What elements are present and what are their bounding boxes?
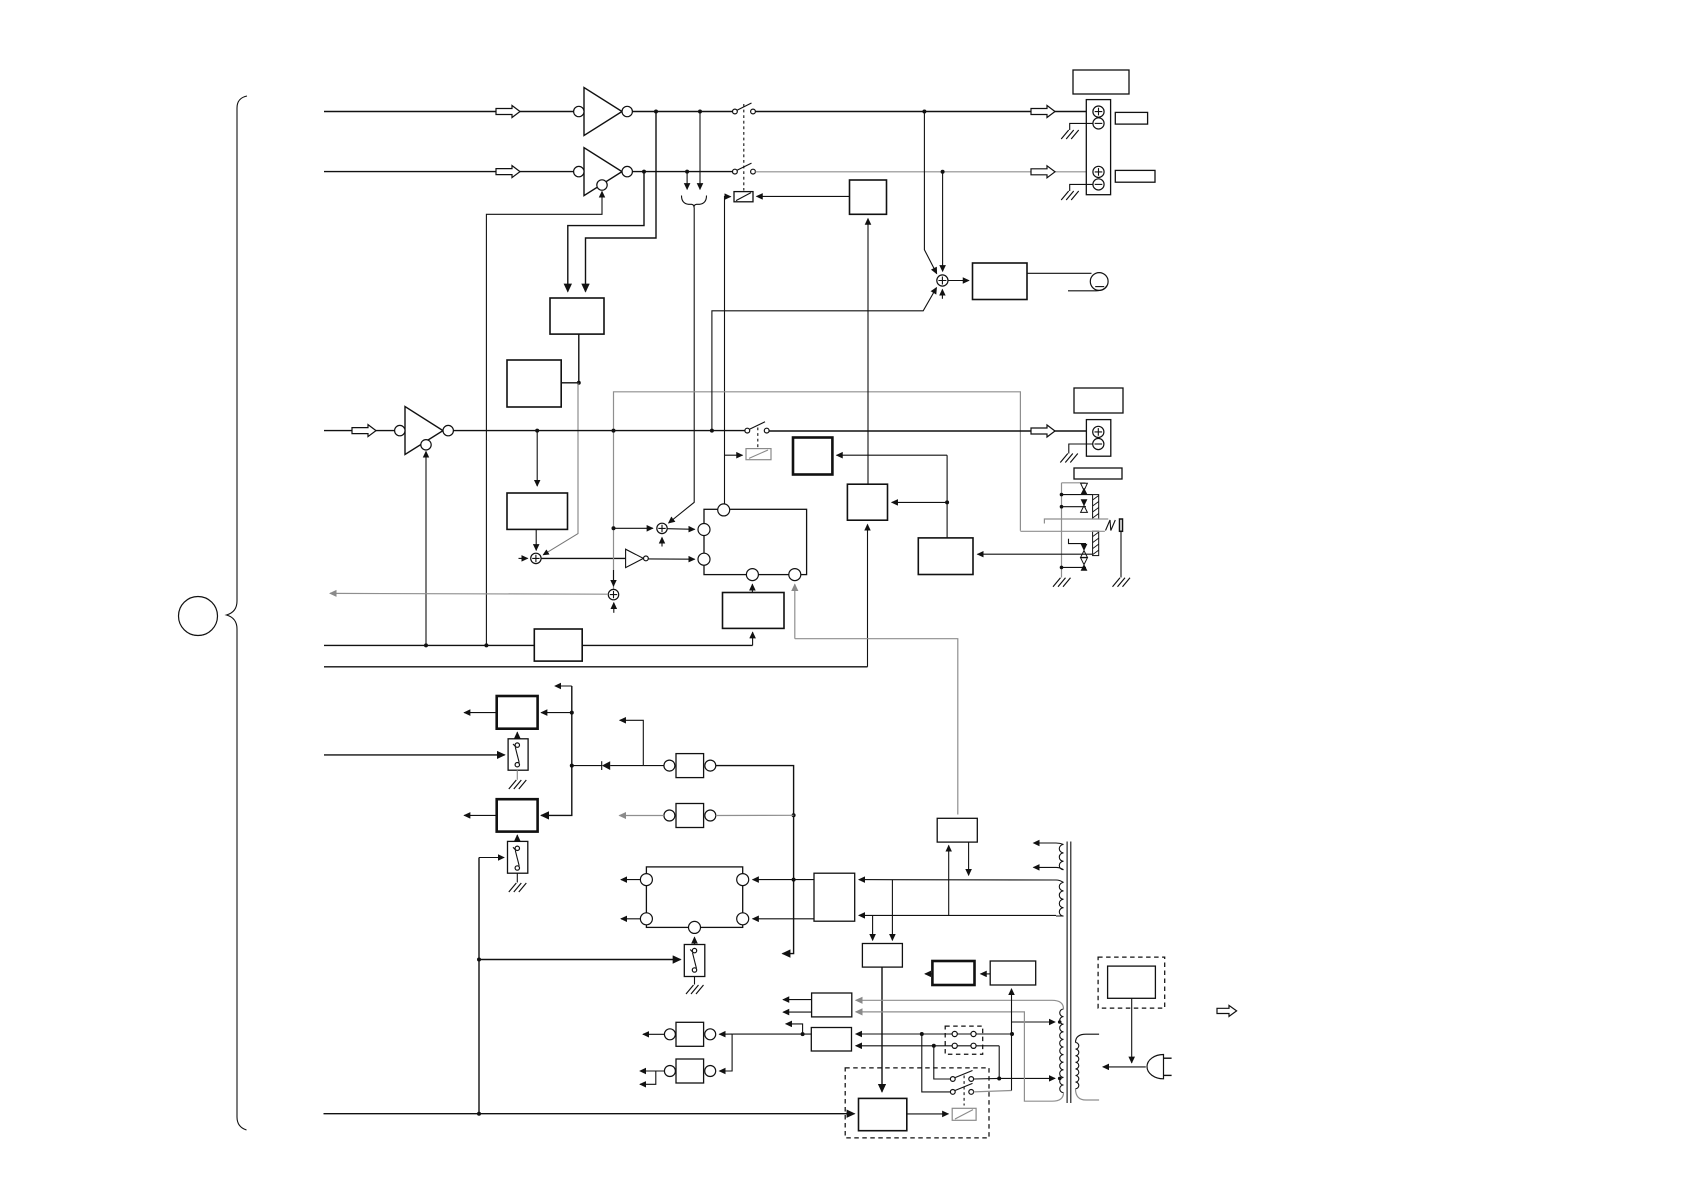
connector pair P3 bbox=[664, 1022, 715, 1046]
wire block U top to block H bbox=[867, 219, 869, 485]
label box speakers bbox=[1073, 70, 1129, 94]
subwoofer mix vertical from line2 bbox=[942, 172, 944, 271]
wire S6 to ground bbox=[694, 977, 696, 985]
wire rail into block J bbox=[541, 712, 572, 714]
node line1-C bbox=[922, 110, 926, 114]
jack stub 494 bbox=[1062, 494, 1093, 496]
switch S4 (pushbutton) bbox=[508, 739, 528, 770]
W3 bottom lead (gray to box R) bbox=[856, 1012, 1064, 1101]
jack stub 507 bbox=[1062, 506, 1087, 508]
dashed link S3-RY2 bbox=[757, 428, 759, 449]
sub mix feed from line3 bbox=[712, 288, 937, 431]
arrow input R bbox=[496, 166, 520, 178]
wire R minus to ground bbox=[1070, 184, 1093, 191]
AC plug bbox=[1147, 1055, 1172, 1079]
block H (relay driver) bbox=[850, 180, 887, 214]
arrow rail top left bbox=[555, 685, 572, 687]
block N (AC detect) bbox=[937, 818, 977, 842]
W3 tap 1 bbox=[1012, 1021, 1056, 1023]
block K (display 2) bbox=[497, 799, 538, 831]
switch S1 (speaker relay contact L) bbox=[733, 103, 756, 114]
arrow into summer C2 from above bbox=[613, 570, 615, 586]
node row2-upper-switch bbox=[932, 1044, 936, 1048]
terminal SUB minus bbox=[1093, 438, 1104, 449]
label box subwoofer bbox=[1074, 388, 1123, 413]
AC pins dashed box bbox=[945, 1026, 983, 1054]
arrows P4 left out bbox=[640, 1070, 664, 1072]
arrow input L bbox=[496, 106, 520, 118]
wire stub input summer C2 bbox=[613, 603, 615, 613]
node S5 riser bottom bbox=[477, 1112, 481, 1116]
block U (detector) bbox=[847, 484, 887, 520]
wire S4 to ground bbox=[516, 770, 518, 780]
wire vertical E-U-V bbox=[946, 455, 948, 538]
plug stop block bbox=[1120, 519, 1123, 531]
jack frame top bbox=[1062, 482, 1086, 484]
label box speaker L bbox=[1115, 112, 1147, 124]
wire supply rail vertical bbox=[541, 686, 572, 815]
wire adaptor down to AC line bbox=[1131, 998, 1133, 1063]
wire AC line with arrow bbox=[1103, 1066, 1146, 1068]
node bus-U3 bbox=[424, 643, 428, 647]
block C (low pass filter) bbox=[507, 493, 568, 529]
wire line1 tap into block A bbox=[586, 112, 657, 292]
switch S3 (sub relay contact) bbox=[745, 422, 769, 433]
block S (standby supply) bbox=[932, 961, 974, 985]
ground S6 bbox=[686, 985, 704, 994]
wire P1 right to riser bbox=[716, 766, 794, 954]
wire T down to connector pair P4 bbox=[719, 1034, 732, 1071]
ground jack sleeve bbox=[1053, 578, 1071, 587]
wire jack detect to block V bbox=[978, 553, 1093, 555]
wire input L (line 1) bbox=[324, 111, 574, 113]
node gray-line3 bbox=[612, 429, 616, 433]
terminal L minus bbox=[1093, 118, 1104, 129]
connector pair P4 bbox=[664, 1059, 715, 1083]
ground S4 bbox=[509, 780, 527, 789]
wire S5 to block K bbox=[516, 835, 518, 841]
node line2-C bbox=[941, 170, 945, 174]
block L (rectifier) bbox=[814, 873, 855, 921]
W1 lead arrows bbox=[1034, 842, 1057, 844]
label box speaker R bbox=[1115, 170, 1155, 182]
node row1-lower-switch bbox=[920, 1032, 924, 1036]
summer S (headphone mono sum) bbox=[937, 275, 948, 286]
ground L bbox=[1061, 130, 1079, 139]
block G (volume control) bbox=[534, 629, 582, 661]
speaker terminal block L/R bbox=[1086, 100, 1110, 195]
wire SUB minus to ground bbox=[1069, 444, 1093, 454]
wire winding lead 2 into box L bbox=[859, 914, 1056, 916]
wire T to connector pair P3 bbox=[719, 1033, 732, 1035]
dashed enclosure AC adaptor bbox=[1098, 957, 1165, 1008]
control bus wire y645 bbox=[324, 644, 753, 646]
wire input SUB (line 3) bbox=[324, 430, 395, 432]
node row1-riser bbox=[1010, 1032, 1014, 1036]
node rail-J bbox=[570, 711, 574, 715]
W4 bottom lead bbox=[1076, 1089, 1100, 1100]
jack stub 543 bbox=[1069, 539, 1087, 544]
arrow P3 left out bbox=[643, 1033, 664, 1035]
wire stub input summer C3 bbox=[519, 557, 528, 559]
wire block C to summer C3 bbox=[535, 529, 537, 550]
wire line 3 switch to terminal bbox=[769, 430, 1087, 432]
wire winding lead 1 into block bbox=[753, 879, 814, 881]
W3 tap 2 bbox=[999, 1077, 1055, 1079]
label box phones bbox=[1074, 468, 1122, 479]
relay RY3 coil (gray) bbox=[952, 1108, 976, 1120]
wire y668 up into block U bottom bbox=[867, 525, 869, 667]
wire block F to matrix B1 bbox=[751, 584, 753, 592]
node jack sleeve B bbox=[1060, 505, 1064, 509]
wire summer C3 to inverter bbox=[541, 557, 625, 559]
AC pins circles row2 bbox=[952, 1043, 976, 1048]
summer C2 bbox=[608, 589, 618, 599]
subwoofer terminal block bbox=[1086, 420, 1110, 457]
block V (headphone sense) bbox=[918, 538, 973, 575]
amp U1 (L power amp) bbox=[574, 88, 633, 136]
AC pins circles row1 bbox=[952, 1031, 976, 1036]
switch S5 (pushbutton) bbox=[508, 841, 528, 873]
wire block A to block B junction bbox=[561, 334, 578, 383]
terminal R minus bbox=[1093, 179, 1104, 190]
amp U2 (R power amp) bbox=[574, 148, 633, 196]
matrix pin top bbox=[718, 504, 730, 516]
wire P2 left (gray arrow) bbox=[619, 815, 664, 817]
wire line 2 switch to terminal (gray) bbox=[755, 171, 1087, 173]
wire S5 to ground bbox=[516, 873, 518, 882]
jack contact bowtie 1 bbox=[1081, 483, 1088, 494]
T1 winding W2 (middle left) bbox=[1056, 880, 1064, 916]
arrow AC out (big right) bbox=[1217, 1005, 1237, 1016]
connector pair P1 bbox=[664, 754, 716, 778]
matrix pin B1 bbox=[746, 569, 758, 581]
node W3 tap1 bbox=[1058, 1020, 1062, 1024]
headphone plug bar (gray) bbox=[1020, 519, 1108, 531]
summer C3 bbox=[531, 553, 541, 563]
wire standby riser to block Q bbox=[1011, 989, 1013, 1091]
W4 top lead bbox=[1076, 1034, 1100, 1042]
wire lower switch right (gray) bbox=[974, 1091, 1012, 1092]
wire plug stop to ground bbox=[1120, 531, 1122, 577]
wire junction down to summer C3 bbox=[543, 383, 578, 555]
ground jack right bbox=[1113, 578, 1131, 587]
wire RY2 from box E bbox=[837, 454, 948, 456]
wire stub input summer C1 bbox=[661, 538, 663, 547]
wire box L into block bbox=[753, 918, 814, 920]
arrow block J output bbox=[464, 712, 497, 714]
block E (mute control) bbox=[793, 438, 832, 475]
jack contact bowtie 2 bbox=[1081, 499, 1088, 512]
power switch S7 upper bbox=[950, 1071, 973, 1082]
wire S4 feed bbox=[324, 754, 505, 756]
headphone earpiece icon bbox=[1068, 273, 1108, 291]
wire U2 gain control feedback bbox=[486, 192, 602, 646]
wire S6 to connector block bbox=[694, 937, 696, 944]
relay RY2 coil (gray) bbox=[746, 449, 771, 460]
arrow block S out bbox=[925, 973, 932, 975]
matrix pin L1 bbox=[698, 524, 710, 536]
jack insulator hatch top bbox=[1093, 495, 1099, 519]
arrow diode branch up-left bbox=[620, 720, 644, 765]
wire branch to RY2 bbox=[725, 454, 743, 456]
ground S5 bbox=[509, 883, 527, 892]
wire winding lead 1 into box L right bbox=[859, 879, 1056, 881]
arrow block K output bbox=[464, 814, 497, 816]
node gray-branch bbox=[612, 526, 616, 530]
power switch S7 lower bbox=[950, 1083, 973, 1094]
node jack sleeve A bbox=[1060, 493, 1064, 497]
wire block X down to block P bbox=[881, 967, 883, 1092]
wire line 1 amp to switch bbox=[632, 111, 732, 113]
block X (rectifier bridge) bbox=[862, 944, 902, 968]
arrow block Q to block S bbox=[981, 973, 991, 975]
wire lead2 into block X bbox=[872, 915, 874, 940]
wire gray branch to summer C1 bbox=[614, 527, 653, 529]
wire headphone mix output (gray, to left) bbox=[330, 592, 608, 595]
matrix pin L2 bbox=[698, 553, 710, 565]
block M (AC inlet filter) bbox=[811, 1028, 851, 1052]
switch S6 (speakers off pushbutton) bbox=[684, 945, 705, 977]
arrow out SUB bbox=[1031, 425, 1055, 437]
arrow input SUB bbox=[352, 425, 376, 437]
gray headphone feed path bbox=[614, 392, 1021, 595]
dashed link S7-RY3 bbox=[963, 1076, 965, 1106]
node line1-B bbox=[698, 110, 702, 114]
arrow out R bbox=[1031, 166, 1055, 178]
wire inverter to matrix L2 bbox=[648, 558, 694, 560]
wire box N sense 2 bbox=[968, 842, 970, 875]
node rail-diode bbox=[570, 764, 574, 768]
ganged switch dashed link S1-S2-RY1 bbox=[743, 104, 745, 191]
node EUV bbox=[945, 500, 949, 504]
plug spring bbox=[1106, 520, 1116, 531]
speaker selector connector block bbox=[640, 867, 748, 934]
wire lead1 into block X bbox=[891, 880, 893, 941]
terminal R plus bbox=[1093, 166, 1104, 177]
block Q (fuse) bbox=[990, 961, 1035, 985]
wire L minus to ground bbox=[1070, 123, 1093, 130]
T1 winding W3 (big left) bbox=[1060, 1009, 1064, 1093]
wire U3 gain control feedback bbox=[425, 452, 427, 646]
wire into block U right bbox=[892, 501, 947, 503]
wire stub input summer S bbox=[941, 290, 943, 299]
wire line 1 switch to terminal bbox=[755, 111, 1087, 113]
jack insulator hatch bottom bbox=[1093, 531, 1099, 555]
arrow out L bbox=[1031, 106, 1055, 118]
wire to headphone icon bbox=[1027, 272, 1092, 274]
node line1-A bbox=[654, 110, 658, 114]
gray standby path from matrix B2 bbox=[794, 584, 796, 638]
node W3 tap2 bbox=[1058, 1077, 1062, 1081]
node bus-U2 bbox=[484, 643, 488, 647]
wire y667 to block H riser bbox=[324, 666, 868, 668]
wire P2 right (gray) bbox=[716, 814, 794, 816]
relay RY1 coil bbox=[734, 192, 753, 202]
grouping brace bbox=[227, 96, 248, 1130]
wire summer S to headphone amp bbox=[948, 280, 969, 282]
arrow block left out B bbox=[621, 918, 640, 920]
wire upper switch to tap bbox=[974, 1077, 1000, 1080]
jack contact bowtie 3 bbox=[1081, 544, 1088, 558]
block J (display) bbox=[497, 696, 538, 729]
headphone jack sleeve line (gray) bbox=[1061, 483, 1063, 578]
block W (AC adaptor) bbox=[1108, 966, 1156, 998]
wire bus into block F bottom bbox=[752, 632, 754, 645]
block A (bass boost) bbox=[550, 298, 604, 334]
node M-branch-up bbox=[801, 1032, 805, 1036]
diode D1 bbox=[572, 761, 644, 770]
arrow block left out A bbox=[621, 879, 640, 881]
inverter U4 bbox=[626, 549, 649, 567]
node line2-A bbox=[642, 170, 646, 174]
wire box N sense 1 bbox=[948, 846, 950, 916]
wire input R (line 2) bbox=[324, 171, 574, 173]
terminal SUB plus bbox=[1093, 426, 1104, 437]
wire line2 tap into block A bbox=[568, 172, 644, 292]
block P (power on control) bbox=[859, 1098, 907, 1130]
jack stub 567 bbox=[1062, 566, 1087, 568]
wire S4 to block J bbox=[516, 732, 518, 739]
wire remote power feed bbox=[324, 1113, 855, 1115]
block I (headphone amp) bbox=[973, 263, 1028, 300]
W3 top lead (gray to box R) bbox=[856, 1000, 1064, 1009]
connector arrows to speaker cable bbox=[686, 172, 688, 190]
node jack sleeve C bbox=[1060, 566, 1064, 570]
node line3-blockC bbox=[535, 429, 539, 433]
wire line 3 amp to switch bbox=[453, 430, 745, 432]
wire row2 to upper power switch bbox=[934, 1046, 950, 1079]
source group circle bbox=[179, 597, 218, 636]
subwoofer mix vertical from line1 bbox=[924, 112, 936, 274]
wire RY1 from box H bbox=[757, 195, 850, 197]
wire block P to RY3 bbox=[907, 1113, 949, 1115]
terminal L plus bbox=[1093, 106, 1104, 117]
node riser-winding bbox=[792, 878, 796, 882]
node switch-tap bbox=[997, 1077, 1001, 1081]
wire RY1 drive from protection bbox=[725, 197, 731, 504]
block B (tone) bbox=[507, 360, 561, 407]
protection matrix block D bbox=[704, 509, 807, 574]
arrow block R out 2 bbox=[783, 1011, 812, 1013]
block F (power supply detect) bbox=[723, 593, 785, 629]
connector pair P2 (gray) bbox=[664, 804, 716, 828]
switch S2 (speaker relay contact R) bbox=[733, 163, 756, 174]
wire line3 tap into block C bbox=[536, 431, 538, 486]
wire headphone feed down from bracket bbox=[669, 208, 695, 524]
wire block M left bus bbox=[732, 1033, 811, 1035]
matrix pin B2 bbox=[789, 569, 801, 581]
wire block M right row 2 bbox=[856, 1045, 999, 1047]
wire S5 feed riser bbox=[478, 858, 480, 1114]
node line2-B bbox=[685, 170, 689, 174]
wire row2 corner to tap node bbox=[998, 1046, 1000, 1079]
wire switch S6 feed bbox=[479, 959, 681, 961]
node line3-sum bbox=[710, 429, 714, 433]
node riser-gray bbox=[792, 813, 796, 817]
ground R bbox=[1061, 191, 1079, 200]
amp U3 (subwoofer amp) bbox=[395, 407, 454, 455]
wire P1 left lead bbox=[643, 765, 664, 767]
block R (power indicator) bbox=[812, 993, 852, 1017]
summer C1 bbox=[657, 523, 667, 533]
dashed enclosure power block bbox=[845, 1068, 989, 1138]
wire block M right row 1 bbox=[856, 1033, 1012, 1035]
node AB bbox=[577, 381, 581, 385]
wire summer C1 to matrix L1 bbox=[667, 528, 694, 531]
arrow branch up-left bbox=[786, 1024, 803, 1034]
jack contact bowtie 4 bbox=[1081, 558, 1088, 571]
transformer T1 core bbox=[1067, 842, 1071, 1104]
T1 winding W4 (secondary right) bbox=[1076, 1043, 1079, 1089]
wire S5 feed bbox=[479, 857, 504, 859]
node S5 riser switch6 bbox=[477, 958, 481, 962]
wire row1 to lower power switch bbox=[922, 1034, 950, 1092]
wire line 2 amp to switch bbox=[632, 171, 732, 173]
arrow block R out 1 bbox=[783, 999, 812, 1001]
speaker cable connector bracket bbox=[682, 196, 707, 208]
T1 winding W1 (top left) bbox=[1056, 843, 1064, 870]
ground SUB bbox=[1060, 454, 1078, 463]
